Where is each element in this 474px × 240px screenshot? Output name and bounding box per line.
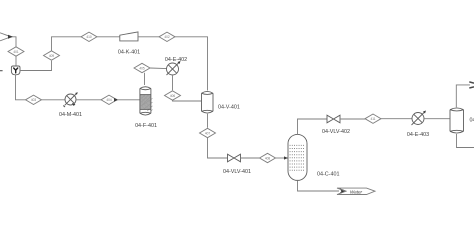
vessel 04-V-401 <box>202 91 214 113</box>
arrowhead at column feed <box>284 156 288 159</box>
svg-text:04-E-402: 04-E-402 <box>165 57 187 63</box>
svg-text:04-VLV-401: 04-VLV-401 <box>223 169 251 175</box>
svg-text:04-M-401: 04-M-401 <box>59 112 82 118</box>
wire column bottom to water flag <box>298 181 340 192</box>
arrowhead at feed flag tip <box>8 35 13 39</box>
pump 04-M-401 (circle with cross and arrow) <box>63 92 77 107</box>
node S7 stream diamond <box>200 128 216 137</box>
wire V-402 top to gas flag at right edge <box>456 85 470 107</box>
wire diamond S11 to filter F-401 <box>117 99 140 101</box>
svg-text:405: 405 <box>139 66 145 70</box>
wire valve VLV-401 to diamond S8 <box>241 157 260 159</box>
wire pump M-401 to diamond S11 <box>76 99 101 101</box>
compressor 04-K-401 <box>120 32 138 41</box>
wire valve VLV-402 to diamond S9 <box>340 118 365 120</box>
node S6 stream diamond <box>165 91 181 100</box>
wire mixer bottom to pump run <box>16 75 26 100</box>
cut-off label dash at left edge <box>0 70 3 72</box>
arrowhead after diamond S11 <box>114 98 119 102</box>
wire diamond S7 down and right to valve VLV-401 <box>208 138 228 158</box>
wire diamond S5 to exchanger E-402 <box>150 67 167 70</box>
node S2 stream diamond <box>44 51 60 60</box>
svg-text:04-C-401: 04-C-401 <box>317 171 339 177</box>
svg-text:04-F-401: 04-F-401 <box>135 123 157 129</box>
svg-text:04-VLV-402: 04-VLV-402 <box>322 129 350 135</box>
node S3 stream diamond <box>81 32 97 41</box>
svg-text:404: 404 <box>106 98 112 102</box>
svg-text:04-E-403: 04-E-403 <box>407 132 429 138</box>
vessel 04-V-402 <box>450 108 464 133</box>
wire diamond S10 to pump M-401 <box>42 99 66 101</box>
wire column top to valve VLV-402 <box>298 119 328 135</box>
wire V-401 bottom to diamond S7 <box>207 114 209 128</box>
node S10 stream diamond <box>26 95 42 104</box>
svg-text:411: 411 <box>370 117 375 121</box>
column trays (dotted) <box>290 145 306 170</box>
heat exchanger 04-E-403 (circle with cross and arrow) <box>412 111 427 126</box>
svg-text:04-K-401: 04-K-401 <box>118 50 140 56</box>
svg-text:410: 410 <box>86 35 92 39</box>
wire feed flag to diamond S1 <box>11 37 16 47</box>
wire E-402 to diamond S6 <box>172 75 174 90</box>
arrowhead at water flag <box>339 188 347 194</box>
wire diamond S6 to V-401 left port <box>173 99 202 102</box>
wire diamond S4 to V-401 top <box>175 37 208 91</box>
svg-text:403: 403 <box>31 98 37 102</box>
wire diamond S3 to compressor <box>97 36 120 38</box>
wire diamond S9 to exchanger E-403 <box>381 118 412 120</box>
wire E-403 to vessel V-402 <box>424 118 450 120</box>
svg-text:406: 406 <box>170 94 176 98</box>
inlet stream flag (cut off at left edge) <box>0 33 11 41</box>
water outlet flag <box>337 188 375 194</box>
svg-text:Water: Water <box>350 189 363 194</box>
svg-text:04-V-401: 04-V-401 <box>218 104 240 110</box>
filter 04-F-401 <box>140 87 153 115</box>
svg-text:401: 401 <box>13 50 19 54</box>
wire V-402 bottom to right edge <box>457 134 474 148</box>
svg-text:402: 402 <box>164 35 170 39</box>
node S1 stream diamond <box>8 47 24 56</box>
valve 04-VLV-401 <box>228 154 241 162</box>
wire recycle riser up and right to diamond S3 <box>52 37 82 51</box>
node S11 stream diamond <box>101 95 117 104</box>
column 04-C-401 <box>288 134 307 180</box>
wire diamond S8 to column C-401 feed <box>276 157 288 159</box>
wire compressor to diamond S4 <box>138 36 159 38</box>
svg-text:407: 407 <box>205 131 211 135</box>
svg-text:04-V-402: 04-V-402 <box>470 118 474 124</box>
svg-text:408: 408 <box>265 156 271 160</box>
heat exchanger 04-E-402 (circle with cross and arrow) <box>167 61 181 75</box>
wire mixer right port to recycle riser <box>20 61 52 71</box>
wire filter top to diamond S5 <box>144 73 146 85</box>
node S9 stream diamond <box>365 114 381 123</box>
node S5 stream diamond <box>134 63 150 72</box>
node S4 stream diamond <box>159 32 175 41</box>
wire diamond S1 to mixer top <box>15 56 17 65</box>
valve 04-VLV-402 <box>327 115 340 123</box>
node S8 stream diamond <box>260 153 276 162</box>
svg-text:409: 409 <box>49 54 55 58</box>
gas outlet flag (cut off at right edge) <box>469 82 474 88</box>
mixer MIX-401 (Y symbol) <box>11 66 20 75</box>
